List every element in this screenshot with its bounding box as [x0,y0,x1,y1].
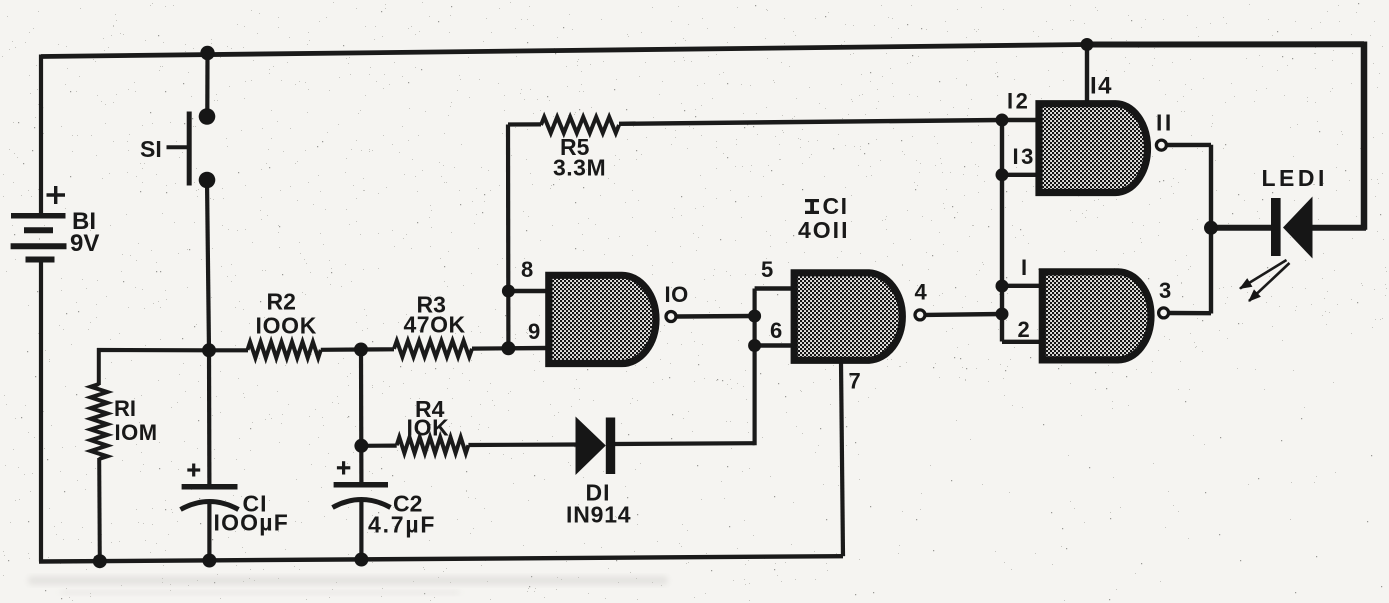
svg-text:IOM: IOM [115,420,158,445]
svg-text:I4: I4 [1090,73,1113,100]
svg-text:I: I [1021,255,1027,280]
svg-text:47OK: 47OK [404,312,466,338]
svg-text:3.3M: 3.3M [553,155,606,181]
svg-text:4OII: 4OII [798,217,849,243]
svg-text:3: 3 [1159,278,1171,303]
svg-text:I2: I2 [1007,89,1030,114]
svg-text:IN914: IN914 [566,502,631,528]
svg-text:7: 7 [849,369,861,394]
svg-text:9V: 9V [70,230,99,257]
svg-text:2: 2 [1018,317,1030,342]
svg-text:II: II [1156,110,1174,136]
svg-text:4: 4 [915,280,928,305]
svg-text:SI: SI [140,136,162,162]
svg-text:9: 9 [528,319,540,344]
svg-text:RI: RI [114,396,136,421]
svg-text:6: 6 [770,318,782,343]
svg-text:R2: R2 [267,289,296,315]
svg-text:I3: I3 [1013,144,1036,169]
svg-text:IOK: IOK [407,415,450,441]
svg-text:LEDI: LEDI [1262,165,1328,191]
svg-text:8: 8 [521,257,533,282]
svg-text:IOOK: IOOK [256,313,318,339]
svg-text:CI: CI [823,193,849,219]
svg-text:4.7µF: 4.7µF [368,512,436,538]
svg-text:IOOµF: IOOµF [214,510,289,536]
svg-text:IO: IO [665,282,689,307]
svg-text:5: 5 [761,257,773,282]
